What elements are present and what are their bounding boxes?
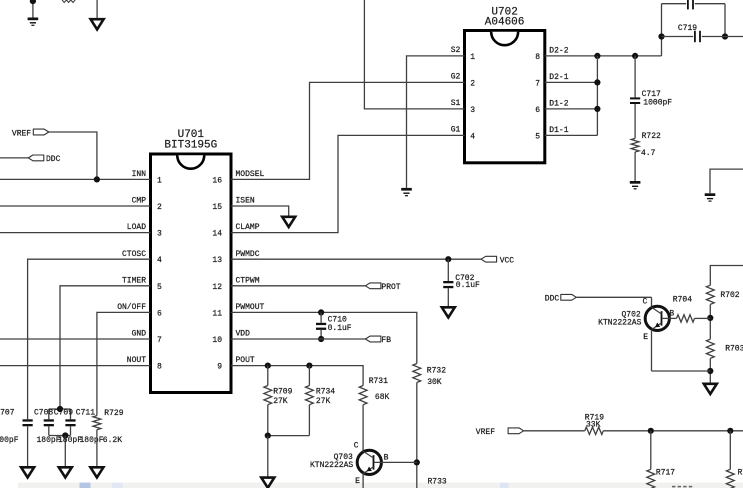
svg-text:C707: C707 <box>0 409 15 418</box>
svg-text:R7: R7 <box>738 469 743 478</box>
svg-text:G1: G1 <box>451 125 461 134</box>
svg-text:VREF: VREF <box>476 428 495 437</box>
svg-text:C: C <box>354 442 359 451</box>
svg-text:30K: 30K <box>427 378 442 387</box>
svg-text:27K: 27K <box>316 397 331 406</box>
svg-text:ON/OFF: ON/OFF <box>117 303 146 312</box>
svg-text:DDC: DDC <box>46 155 61 164</box>
svg-text:3: 3 <box>470 106 475 115</box>
svg-text:15: 15 <box>212 203 222 212</box>
svg-text:68K: 68K <box>375 393 390 402</box>
svg-text:E: E <box>355 477 360 486</box>
svg-text:DDC: DDC <box>545 294 560 303</box>
svg-text:S2: S2 <box>451 46 461 55</box>
svg-text:R703: R703 <box>725 345 743 354</box>
svg-text:R729: R729 <box>104 409 123 418</box>
svg-text:0.1uF: 0.1uF <box>328 324 352 333</box>
svg-text:D1-2: D1-2 <box>549 99 568 108</box>
svg-text:TIMER: TIMER <box>122 276 146 285</box>
svg-text:0.1uF: 0.1uF <box>456 281 480 290</box>
svg-text:R722: R722 <box>642 132 661 141</box>
svg-text:PWMOUT: PWMOUT <box>236 303 265 312</box>
svg-text:6: 6 <box>535 106 540 115</box>
svg-text:VCC: VCC <box>500 256 515 265</box>
svg-text:C719: C719 <box>678 24 697 33</box>
svg-text:5: 5 <box>157 283 162 292</box>
svg-text:GND: GND <box>132 330 147 339</box>
svg-text:LOAD: LOAD <box>127 223 146 232</box>
svg-text:4: 4 <box>470 133 475 142</box>
svg-text:R702: R702 <box>720 291 739 300</box>
svg-text:27K: 27K <box>273 397 288 406</box>
svg-text:R717: R717 <box>656 469 675 478</box>
svg-text:3: 3 <box>157 230 162 239</box>
svg-text:C: C <box>642 297 647 306</box>
svg-text:8: 8 <box>157 363 162 372</box>
svg-text:FB: FB <box>381 336 391 345</box>
svg-text:D1-1: D1-1 <box>549 126 568 135</box>
svg-text:BIT3195G: BIT3195G <box>164 140 217 152</box>
svg-text:13: 13 <box>212 256 222 265</box>
svg-text:POUT: POUT <box>236 356 255 365</box>
svg-text:6: 6 <box>157 309 162 318</box>
svg-text:R733: R733 <box>428 478 447 487</box>
svg-text:R731: R731 <box>369 377 388 386</box>
svg-text:G2: G2 <box>451 72 461 81</box>
svg-text:R734: R734 <box>316 387 335 396</box>
svg-text:A04606: A04606 <box>485 17 525 29</box>
svg-text:R732: R732 <box>427 366 446 375</box>
svg-text:14: 14 <box>212 230 222 239</box>
svg-text:2: 2 <box>157 203 162 212</box>
svg-text:KTN2222AS: KTN2222AS <box>598 319 641 328</box>
svg-text:ISEN: ISEN <box>236 197 255 206</box>
svg-text:7: 7 <box>157 336 162 345</box>
svg-text:5: 5 <box>535 133 540 142</box>
svg-text:E: E <box>643 333 648 342</box>
svg-text:D2-1: D2-1 <box>549 73 568 82</box>
svg-text:16: 16 <box>212 176 222 185</box>
svg-text:C708: C708 <box>34 409 53 418</box>
svg-text:NOUT: NOUT <box>127 356 146 365</box>
svg-text:R704: R704 <box>673 296 692 305</box>
svg-text:1000pF: 1000pF <box>643 99 672 108</box>
svg-text:D2-2: D2-2 <box>549 46 568 55</box>
svg-text:PROT: PROT <box>381 283 400 292</box>
svg-text:R709: R709 <box>273 387 292 396</box>
svg-text:B: B <box>384 454 389 463</box>
svg-text:C709: C709 <box>54 409 73 418</box>
svg-text:1: 1 <box>157 176 162 185</box>
svg-text:11: 11 <box>212 309 222 318</box>
svg-text:7: 7 <box>535 80 540 89</box>
svg-text:KTN2222AS: KTN2222AS <box>310 461 353 470</box>
svg-text:180pF: 180pF <box>80 436 104 445</box>
svg-text:4.7: 4.7 <box>641 149 656 158</box>
svg-text:CMP: CMP <box>132 197 147 206</box>
svg-text:VDD: VDD <box>236 330 251 339</box>
svg-text:6.2K: 6.2K <box>103 436 122 445</box>
svg-text:S1: S1 <box>451 99 461 108</box>
svg-text:CLAMP: CLAMP <box>236 223 260 232</box>
svg-text:10: 10 <box>212 336 222 345</box>
svg-text:9: 9 <box>217 363 222 372</box>
svg-text:C711: C711 <box>76 409 95 418</box>
svg-text:2: 2 <box>470 80 475 89</box>
svg-text:4: 4 <box>157 256 162 265</box>
svg-text:B: B <box>669 309 674 318</box>
svg-text:CTOSC: CTOSC <box>122 250 146 259</box>
svg-text:PWMDC: PWMDC <box>236 250 260 259</box>
svg-text:VREF: VREF <box>12 129 31 138</box>
svg-text:CTPWM: CTPWM <box>236 276 260 285</box>
svg-text:1000pF: 1000pF <box>0 436 19 445</box>
svg-text:8: 8 <box>535 53 540 62</box>
svg-text:12: 12 <box>212 283 222 292</box>
svg-text:INN: INN <box>132 170 147 179</box>
svg-text:1: 1 <box>470 53 475 62</box>
svg-text:33K: 33K <box>586 420 601 429</box>
svg-text:MODSEL: MODSEL <box>236 170 265 179</box>
